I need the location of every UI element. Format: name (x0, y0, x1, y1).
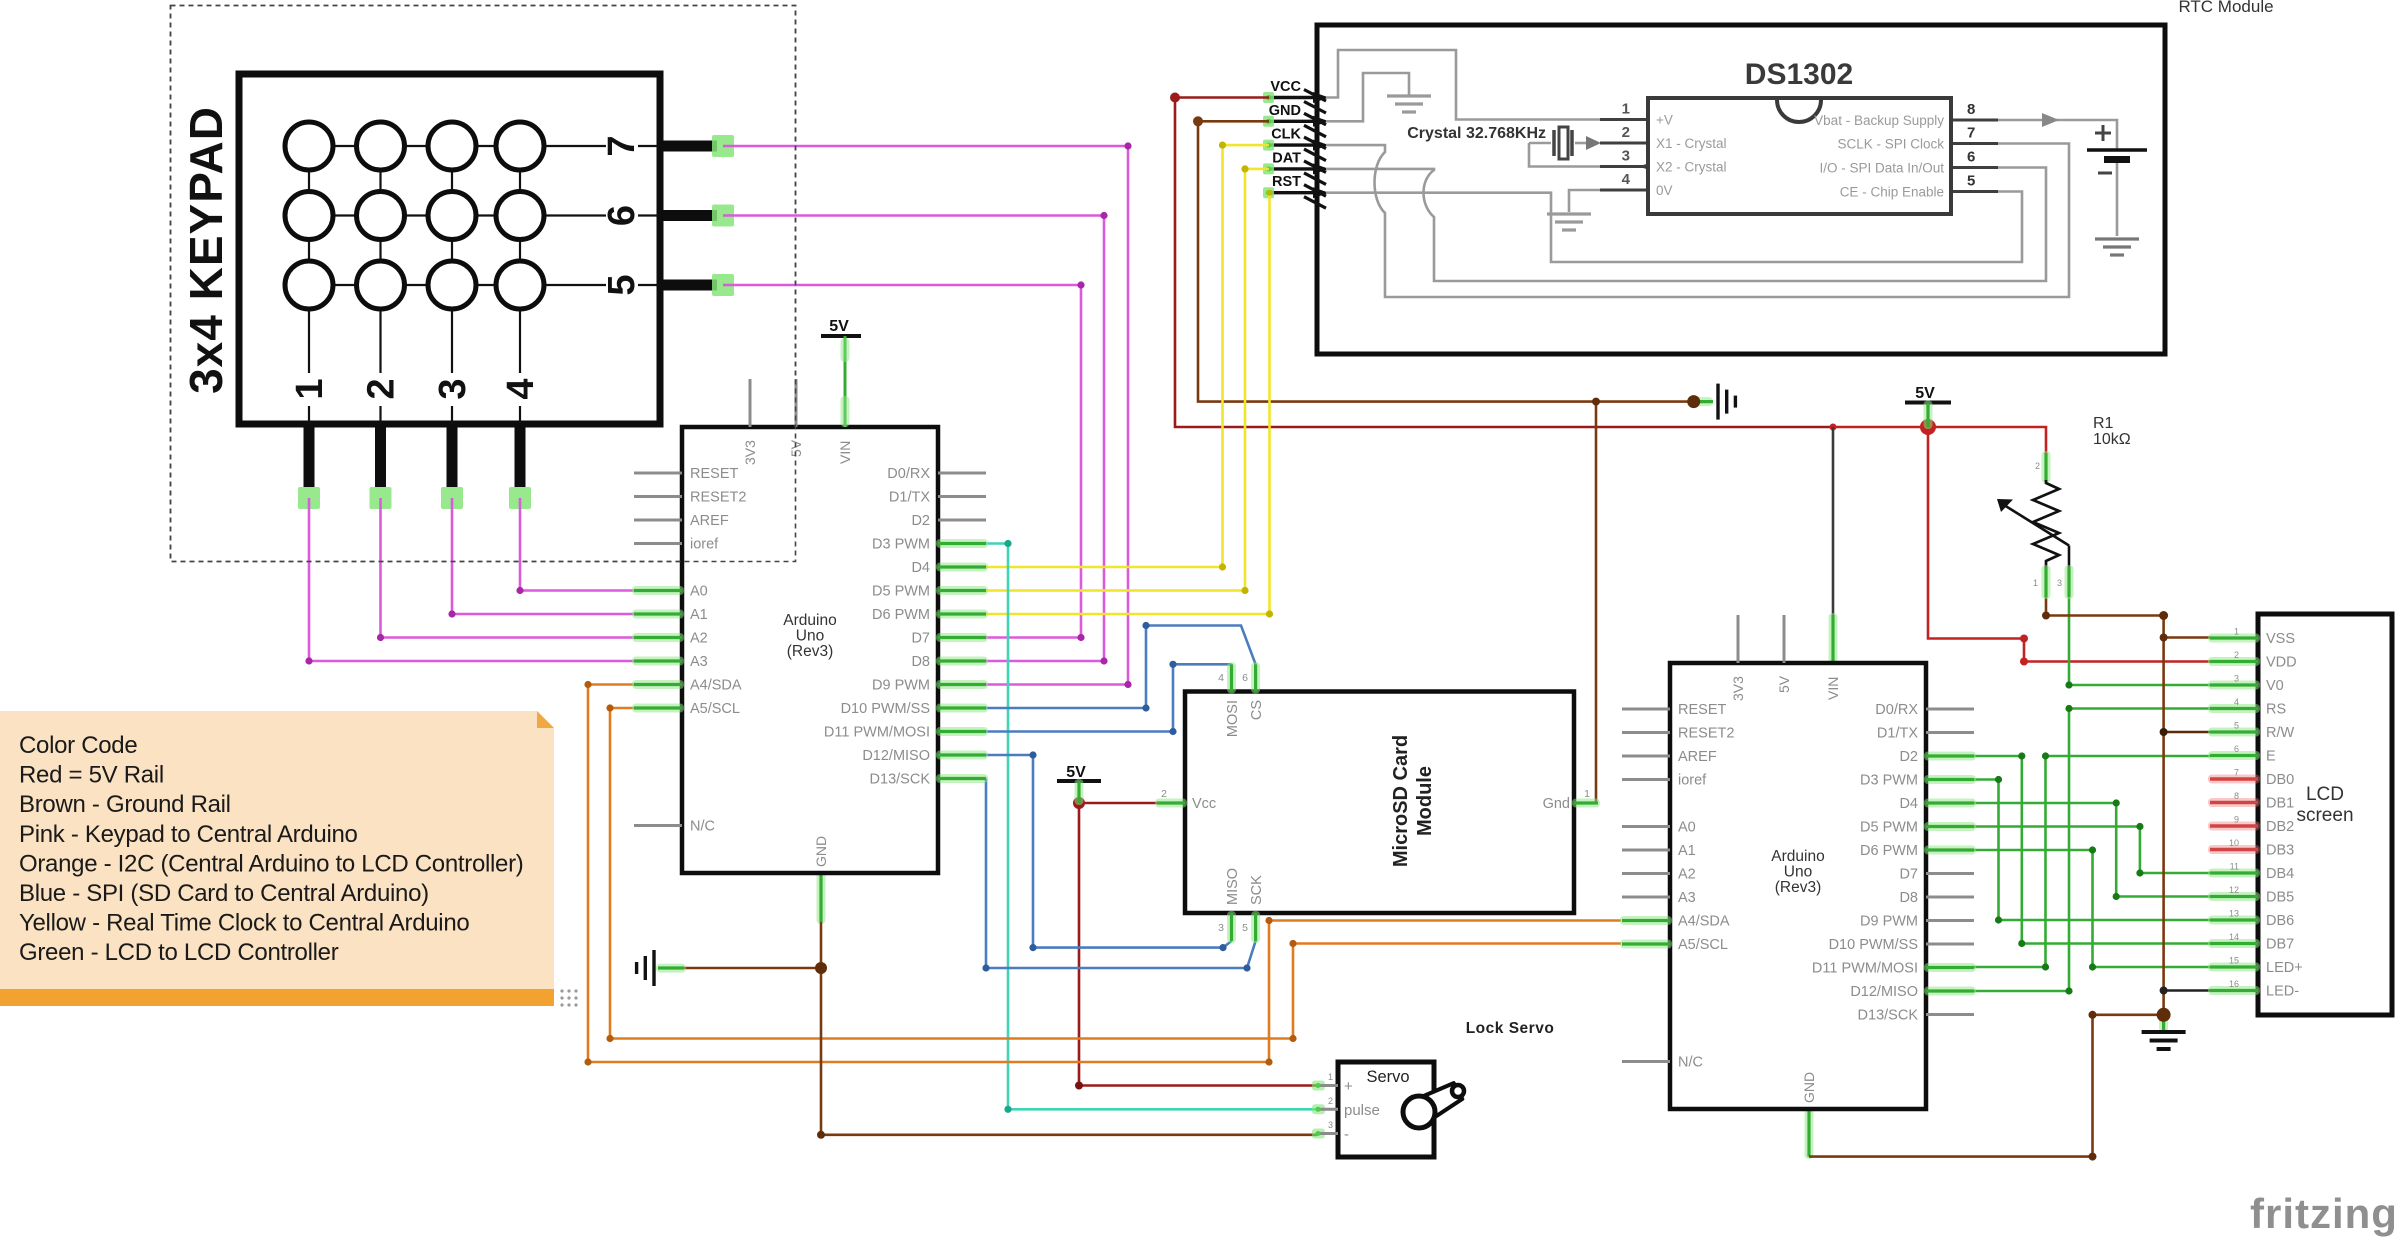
svg-text:A2: A2 (690, 631, 708, 647)
svg-text:3: 3 (1218, 922, 1224, 934)
keypad dashed selection box (171, 6, 796, 562)
svg-text:5: 5 (1967, 173, 1975, 190)
junction VCC rail corner (1170, 93, 1180, 103)
svg-text:12: 12 (2229, 885, 2239, 895)
svg-text:2: 2 (1328, 1096, 1333, 1106)
DS1302 pin stubs right (1951, 119, 1998, 122)
svg-text:6: 6 (1242, 672, 1248, 684)
svg-text:X2 - Crystal: X2 - Crystal (1656, 160, 1727, 175)
crystal X2 loop wire (1529, 143, 1640, 167)
svg-text:D0/RX: D0/RX (887, 466, 930, 482)
wire keypad pin4 to U1 A0 (pink) (520, 498, 634, 591)
svg-text:R1: R1 (2093, 415, 2114, 432)
orange wire bendpoint dots (584, 681, 591, 688)
svg-text:2: 2 (1161, 788, 1167, 800)
wire U2 D12 to LCD RS (green) (1973, 709, 2210, 992)
svg-text:3: 3 (1328, 1120, 1333, 1130)
wire U2 D3 to LCD DB6 (green) (1973, 780, 2210, 921)
wire U1 A5/SCL to U2 A5/SCL (orange I2C SCL) (610, 708, 1621, 1039)
svg-text:Module: Module (1414, 766, 1436, 836)
svg-text:D1/TX: D1/TX (1877, 726, 1918, 742)
wire net 5V2 (dark red) microSD Vcc / servo + (1079, 783, 1317, 1086)
svg-text:5V: 5V (1776, 675, 1792, 693)
Arduino U1 top pins 3V3 5V VIN (749, 379, 752, 427)
svg-text:Lock Servo: Lock Servo (1466, 1020, 1555, 1037)
green wire junction dots (1995, 776, 2002, 783)
svg-text:6: 6 (1967, 149, 1975, 166)
svg-text:A0: A0 (1678, 820, 1696, 836)
junction ground rail corner (1193, 116, 1203, 126)
svg-text:A4/SDA: A4/SDA (1678, 914, 1730, 930)
svg-text:RS: RS (2266, 702, 2286, 718)
svg-text:D2: D2 (911, 513, 930, 529)
svg-text:D2: D2 (1899, 749, 1918, 765)
wire DS1302 pin8 Vbat to battery (1998, 120, 2117, 149)
keypad right pins (660, 141, 717, 152)
svg-text:RESET: RESET (690, 466, 738, 482)
svg-text:RESET: RESET (1678, 702, 1726, 718)
wire DAT to DS1302 pin6 I/O (1326, 168, 2046, 282)
svg-text:10kΩ: 10kΩ (2093, 431, 2131, 448)
wire U2 D11 to LCD E (green) (1973, 756, 2210, 967)
wire battery to ground (2116, 163, 2119, 236)
MicroSD MISO pin stub (pin 3) (1227, 911, 1236, 943)
svg-text:8: 8 (2234, 791, 2239, 801)
pot-gnd bendpoint dots (2042, 612, 2050, 620)
svg-text:RTC Module: RTC Module (2178, 0, 2273, 16)
junction 5V2 at microSD Vcc (1073, 797, 1085, 809)
Arduino Uno U1 body (682, 427, 938, 873)
svg-text:3: 3 (432, 378, 474, 399)
svg-text:VDD: VDD (2266, 655, 2297, 671)
servo M1 body (1338, 1062, 1434, 1157)
svg-text:A3: A3 (1678, 890, 1696, 906)
svg-text:screen: screen (2296, 805, 2353, 826)
svg-text:D1/TX: D1/TX (889, 490, 930, 506)
svg-text:Gnd: Gnd (1543, 796, 1570, 812)
cyan bendpoint dots (1004, 540, 1011, 547)
svg-text:9: 9 (2234, 815, 2239, 825)
svg-text:D3 PWM: D3 PWM (872, 537, 930, 553)
MicroSD MOSI pin stub (pin 4) (1227, 662, 1236, 693)
RTC header pads (1263, 92, 1274, 103)
svg-text:D4: D4 (911, 560, 930, 576)
svg-text:VSS: VSS (2266, 631, 2295, 647)
svg-text:D4: D4 (1899, 796, 1918, 812)
svg-text:15: 15 (2229, 956, 2239, 966)
svg-text:4: 4 (500, 378, 542, 399)
wire U1 D12 to microSD MISO (blue) (986, 755, 1232, 948)
5V2 bendpoint (1075, 1082, 1083, 1090)
svg-text:RESET2: RESET2 (690, 490, 746, 506)
svg-text:RST: RST (1272, 174, 1301, 190)
svg-text:CS: CS (1249, 700, 1265, 720)
wire keypad pin7 to U1 D9 (pink) (723, 146, 1128, 685)
svg-text:D11 PWM/MOSI: D11 PWM/MOSI (824, 725, 930, 741)
blue wire bendpoint dots (1142, 704, 1149, 711)
svg-text:RESET2: RESET2 (1678, 726, 1734, 742)
wire net VCC (dark red) RTC VCC to 5V rail (1175, 98, 1833, 428)
svg-text:Yellow - Real Time Clock to Ce: Yellow - Real Time Clock to Central Ardu… (19, 910, 469, 937)
svg-text:GND: GND (813, 836, 829, 867)
wire RST to DS1302 pin5 CE (1326, 192, 2022, 263)
svg-text:5V: 5V (1066, 764, 1086, 781)
svg-text:DB5: DB5 (2266, 890, 2294, 906)
svg-text:LCD: LCD (2306, 784, 2344, 805)
svg-text:CE - Chip Enable: CE - Chip Enable (1840, 185, 1944, 200)
svg-text:D11 PWM/MOSI: D11 PWM/MOSI (1812, 961, 1918, 977)
svg-text:VIN: VIN (837, 441, 853, 464)
wire net pot ground (brown) R1 pin1 to LCD VSS / RW / LED- / ground (2046, 597, 2164, 1015)
keypad dashed selection box (overlay) (171, 6, 796, 562)
svg-text:X1 - Crystal: X1 - Crystal (1656, 136, 1727, 151)
keypad bottom pin pads (298, 487, 320, 509)
svg-text:6: 6 (601, 205, 643, 226)
svg-text:D9 PWM: D9 PWM (1860, 914, 1918, 930)
svg-text:D12/MISO: D12/MISO (862, 748, 930, 764)
brown branch to LCD VSS (2164, 636, 2210, 639)
svg-text:D9 PWM: D9 PWM (872, 678, 930, 694)
svg-text:VIN: VIN (1825, 677, 1841, 700)
ground symbol below LCD (2159, 1013, 2168, 1033)
junction 5V rail main (big red dot) (1920, 419, 1936, 435)
wire 0V to ground (1569, 190, 1600, 212)
battery BT1 (2095, 132, 2111, 135)
MicroSD CS pin stub (pin 6) (1251, 662, 1260, 693)
svg-text:DAT: DAT (1272, 150, 1301, 166)
svg-text:CLK: CLK (1271, 127, 1301, 143)
keypad button grid lines (333, 145, 357, 147)
svg-text:N/C: N/C (690, 819, 715, 835)
svg-text:A5/SCL: A5/SCL (1678, 937, 1728, 953)
svg-text:MOSI: MOSI (1225, 700, 1241, 737)
junction LCD ground big dot (2157, 1008, 2171, 1022)
yellow wire bendpoint dots (1219, 142, 1226, 149)
MicroSD Gnd pin stub (pin 1) (1572, 799, 1600, 808)
wire U1 D11 to microSD MOSI (blue) (986, 664, 1232, 731)
svg-text:Pink - Keypad to Central Ardui: Pink - Keypad to Central Arduino (19, 821, 358, 848)
svg-text:ioref: ioref (690, 537, 719, 553)
color code sticky note (0, 711, 554, 989)
svg-text:5V: 5V (1915, 385, 1935, 402)
svg-text:(Rev3): (Rev3) (1775, 879, 1822, 896)
wire RTC CLK to U1 D4 (yellow) (986, 145, 1269, 567)
junction 5V rail at U2 VIN (1830, 424, 1837, 431)
DS1302 pin stubs left (1600, 118, 1648, 121)
svg-text:D8: D8 (1899, 890, 1918, 906)
svg-text:1: 1 (2234, 627, 2239, 637)
svg-text:Servo: Servo (1366, 1068, 1409, 1086)
svg-text:Arduino: Arduino (783, 612, 836, 629)
svg-text:Uno: Uno (1784, 864, 1812, 881)
keypad KP1 body (239, 74, 660, 424)
svg-text:1: 1 (1584, 788, 1590, 800)
svg-text:D10 PWM/SS: D10 PWM/SS (1829, 937, 1918, 953)
svg-text:3V3: 3V3 (1730, 676, 1746, 701)
svg-text:5V: 5V (829, 318, 849, 335)
servo pin stubs + - pulse (1312, 1081, 1325, 1091)
svg-text:D7: D7 (1899, 867, 1918, 883)
wire R1 wiper to LCD V0 (green) (2069, 597, 2210, 685)
svg-text:D10 PWM/SS: D10 PWM/SS (841, 701, 930, 717)
Arduino U1 left pin stubs and labels (634, 472, 682, 475)
svg-text:LED+: LED+ (2266, 960, 2303, 976)
svg-text:2: 2 (2035, 461, 2040, 471)
wire U2 D6 to LCD LED+ (green) (1973, 850, 2210, 967)
svg-text:4: 4 (1622, 171, 1631, 188)
svg-text:DB6: DB6 (2266, 913, 2294, 929)
Arduino Uno U2 body (1670, 663, 1926, 1109)
R1 pin3 pad (2065, 565, 2074, 599)
svg-text:ioref: ioref (1678, 773, 1707, 789)
svg-text:1: 1 (1622, 101, 1630, 118)
wire 5V symbol to U1 VIN (green) (844, 336, 847, 427)
svg-text:5: 5 (1242, 922, 1248, 934)
svg-text:11: 11 (2230, 862, 2239, 872)
MicroSD title (1390, 735, 1436, 867)
svg-text:N/C: N/C (1678, 1055, 1703, 1071)
svg-text:A3: A3 (690, 654, 708, 670)
svg-text:LED-: LED- (2266, 984, 2299, 1000)
svg-text:D5 PWM: D5 PWM (1860, 820, 1918, 836)
keypad right pin pads (712, 135, 734, 157)
svg-text:D3 PWM: D3 PWM (1860, 773, 1918, 789)
svg-text:SCK: SCK (1249, 875, 1265, 905)
junction U1 GND (815, 962, 827, 974)
svg-text:DB3: DB3 (2266, 843, 2294, 859)
svg-text:DB0: DB0 (2266, 772, 2294, 788)
RTC module outer box (1317, 25, 2165, 354)
svg-text:D5 PWM: D5 PWM (872, 584, 930, 600)
svg-text:A5/SCL: A5/SCL (690, 701, 740, 717)
svg-text:2: 2 (1622, 124, 1630, 141)
svg-text:Color Code: Color Code (19, 732, 137, 759)
wire U2 GND net (green pin + brown to LCD ground) (1805, 1106, 1814, 1159)
R1 pin2 pad (2042, 451, 2051, 483)
svg-text:A4/SDA: A4/SDA (690, 678, 742, 694)
R1 resistor zigzag (2033, 480, 2059, 567)
svg-text:DS1302: DS1302 (1745, 58, 1853, 91)
svg-text:V0: V0 (2266, 678, 2284, 694)
svg-text:SCLK - SPI Clock: SCLK - SPI Clock (1837, 137, 1944, 152)
svg-text:DB7: DB7 (2266, 937, 2294, 953)
R1 wiper arrow (2004, 505, 2069, 546)
Arduino U2 right pin stubs and labels (1926, 708, 1974, 711)
svg-text:(Rev3): (Rev3) (787, 643, 834, 660)
svg-text:16: 16 (2229, 979, 2239, 989)
junction ground rail big dot (1687, 395, 1700, 408)
svg-text:Orange - I2C (Central Arduino: Orange - I2C (Central Arduino to LCD Con… (19, 850, 523, 877)
wire CLK to DS1302 pin7 SCLK (1326, 144, 2069, 298)
svg-text:DB4: DB4 (2266, 866, 2294, 882)
wire U1 D3 to servo pulse (cyan) (986, 544, 1317, 1110)
ground symbol under battery (2095, 237, 2139, 240)
svg-text:Red = 5V Rail: Red = 5V Rail (19, 762, 164, 789)
wire keypad pin5 to U1 D7 (pink) (723, 285, 1081, 638)
svg-text:2: 2 (2234, 650, 2239, 660)
svg-text:-: - (1344, 1126, 1349, 1143)
junction at microSD gnd branch (1592, 398, 1600, 406)
svg-text:Crystal 32.768KHz: Crystal 32.768KHz (1407, 125, 1546, 142)
svg-text:A2: A2 (1678, 867, 1696, 883)
svg-text:MISO: MISO (1225, 868, 1241, 905)
wire keypad pin6 to U1 D8 (pink) (723, 216, 1104, 662)
wire U2 VIN pin (green) (1829, 613, 1838, 665)
svg-text:14: 14 (2229, 932, 2239, 942)
RTC header pin arrows (1269, 96, 1316, 99)
wire U2 D2 to LCD DB7 (green) (1973, 756, 2210, 944)
wire U2 VIN feed (dark) (1832, 427, 1835, 615)
wire U1 D10 to microSD CS (blue) (986, 626, 1256, 709)
svg-text:7: 7 (601, 135, 643, 156)
svg-text:10: 10 (2229, 838, 2239, 848)
svg-text:0V: 0V (1656, 183, 1673, 198)
svg-text:5: 5 (601, 274, 643, 295)
svg-text:6: 6 (2234, 744, 2239, 754)
svg-text:A0: A0 (690, 584, 708, 600)
U2 GND bendpoints (2089, 1153, 2097, 1161)
wire U2 D5 to LCD DB4 (green) (1973, 827, 2210, 874)
svg-text:Blue - SPI (SD Card to Central: Blue - SPI (SD Card to Central Arduino) (19, 880, 429, 907)
svg-text:pulse: pulse (1344, 1102, 1380, 1119)
svg-text:2: 2 (361, 378, 403, 399)
svg-text:AREF: AREF (1678, 749, 1717, 765)
svg-text:3x4 KEYPAD: 3x4 KEYPAD (180, 106, 232, 394)
svg-text:Vbat - Backup Supply: Vbat - Backup Supply (1814, 113, 1944, 128)
wire net ground rail (brown) RTC GND to ground (1198, 121, 1694, 401)
crystal X1 lead and symbol (1529, 142, 1551, 145)
svg-text:1: 1 (1328, 1072, 1333, 1082)
wire U1 GND branch to ground symbol (684, 967, 821, 970)
wire RTC DAT to U1 D5 (yellow) (986, 169, 1269, 591)
wire RTC RST to U1 D6 (yellow) (986, 193, 1270, 614)
svg-text:R/W: R/W (2266, 725, 2295, 741)
svg-text:D0/RX: D0/RX (1875, 702, 1918, 718)
keypad buttons (12 circles) (285, 122, 333, 170)
Arduino U2 left pin stubs and labels (1622, 708, 1670, 711)
svg-text:3: 3 (2234, 674, 2239, 684)
brown branch to LCD R/W (2164, 731, 2210, 734)
svg-text:Arduino: Arduino (1771, 848, 1824, 865)
svg-text:Uno: Uno (796, 628, 824, 645)
svg-text:DB1: DB1 (2266, 796, 2294, 812)
ground symbol right of rail (sideways) (1694, 397, 1713, 406)
MicroSD card module body (1185, 692, 1574, 914)
svg-text:I/O - SPI Data In/Out: I/O - SPI Data In/Out (1819, 161, 1944, 176)
svg-text:GND: GND (1269, 103, 1301, 119)
svg-text:1: 1 (289, 378, 331, 399)
LCD pin stubs, numbers, labels (2208, 634, 2260, 643)
servo horn icon (1413, 1083, 1463, 1123)
svg-text:3: 3 (1622, 148, 1630, 165)
svg-text:D13/SCK: D13/SCK (870, 772, 931, 788)
svg-text:4: 4 (2234, 697, 2239, 707)
svg-text:1: 1 (2033, 578, 2038, 588)
note drag handle dots (560, 989, 563, 992)
svg-text:Vcc: Vcc (1192, 796, 1216, 812)
junction VDD route bendpoints (2020, 635, 2028, 643)
Arduino U2 top pins 3V3 5V VIN (1737, 615, 1740, 663)
svg-text:D6 PWM: D6 PWM (1860, 843, 1918, 859)
svg-text:Brown - Ground Rail: Brown - Ground Rail (19, 791, 231, 818)
DS1302 U3 chip body (1648, 98, 1951, 214)
svg-text:D7: D7 (911, 631, 930, 647)
svg-text:VCC: VCC (1270, 79, 1301, 95)
ground symbol inside RTC (top) (1387, 94, 1431, 97)
wire U1 D13 to microSD SCK (blue) (986, 779, 1256, 969)
pink wire bendpoint dots (1124, 142, 1131, 149)
svg-text:D8: D8 (911, 654, 930, 670)
svg-text:E: E (2266, 749, 2276, 765)
svg-text:MicroSD Card: MicroSD Card (1390, 735, 1412, 867)
wire 5V rail branch to LCD VDD (1928, 427, 2210, 662)
MicroSD Vcc pin stub (pin 2) (1155, 799, 1187, 808)
svg-text:D12/MISO: D12/MISO (1850, 984, 1918, 1000)
svg-text:GND: GND (1801, 1072, 1817, 1103)
svg-text:+V: +V (1656, 113, 1673, 128)
ground symbol under DS1302 0V (1547, 212, 1591, 215)
svg-text:+: + (1344, 1078, 1353, 1095)
ground symbol left of U1 (sideways) (652, 950, 655, 986)
keypad bottom pins (304, 424, 315, 487)
svg-text:5: 5 (2234, 721, 2239, 731)
LCD screen body (2258, 614, 2392, 1015)
svg-text:Green - LCD to LCD Controller: Green - LCD to LCD Controller (19, 939, 339, 966)
wire ground rail branch to microSD Gnd (1595, 402, 1598, 803)
svg-text:DB2: DB2 (2266, 819, 2294, 835)
svg-text:D6 PWM: D6 PWM (872, 607, 930, 623)
wire keypad pin2 to U1 A2 (pink) (381, 498, 635, 638)
R1 pin1 pad (2042, 565, 2051, 599)
DS1302 chip notch (1777, 100, 1821, 122)
svg-text:A1: A1 (690, 607, 708, 623)
wire GND to internal ground (1326, 73, 1409, 121)
wire U1 GND net (green pin + brown to servo -) (817, 871, 826, 924)
wire U2 D4 to LCD DB5 (green) (1973, 803, 2210, 897)
wire keypad pin1 to U1 A3 (pink) (309, 498, 634, 661)
svg-text:7: 7 (2234, 768, 2239, 778)
svg-text:3: 3 (2057, 578, 2062, 588)
svg-text:8: 8 (1967, 101, 1975, 118)
svg-text:13: 13 (2229, 909, 2239, 919)
svg-text:7: 7 (1967, 125, 1975, 142)
svg-text:AREF: AREF (690, 513, 729, 529)
svg-text:4: 4 (1218, 672, 1224, 684)
MicroSD SCK pin stub (pin 5) (1251, 911, 1260, 943)
svg-text:fritzing: fritzing (2250, 1190, 2398, 1237)
wire net 5V rail (red) (1833, 427, 2046, 453)
svg-text:D13/SCK: D13/SCK (1858, 1008, 1919, 1024)
Arduino U1 right pin stubs and labels (938, 472, 986, 475)
wire VCC to DS1302 pin1 +V (1326, 50, 1600, 120)
svg-text:A1: A1 (1678, 843, 1696, 859)
svg-text:3V3: 3V3 (742, 440, 758, 465)
wire U1 A4/SDA to U2 A4/SDA (orange I2C SDA) (588, 685, 1621, 1063)
wire keypad pin3 to U1 A1 (pink) (452, 498, 634, 614)
dark branch to LCD LED- (2164, 989, 2210, 992)
